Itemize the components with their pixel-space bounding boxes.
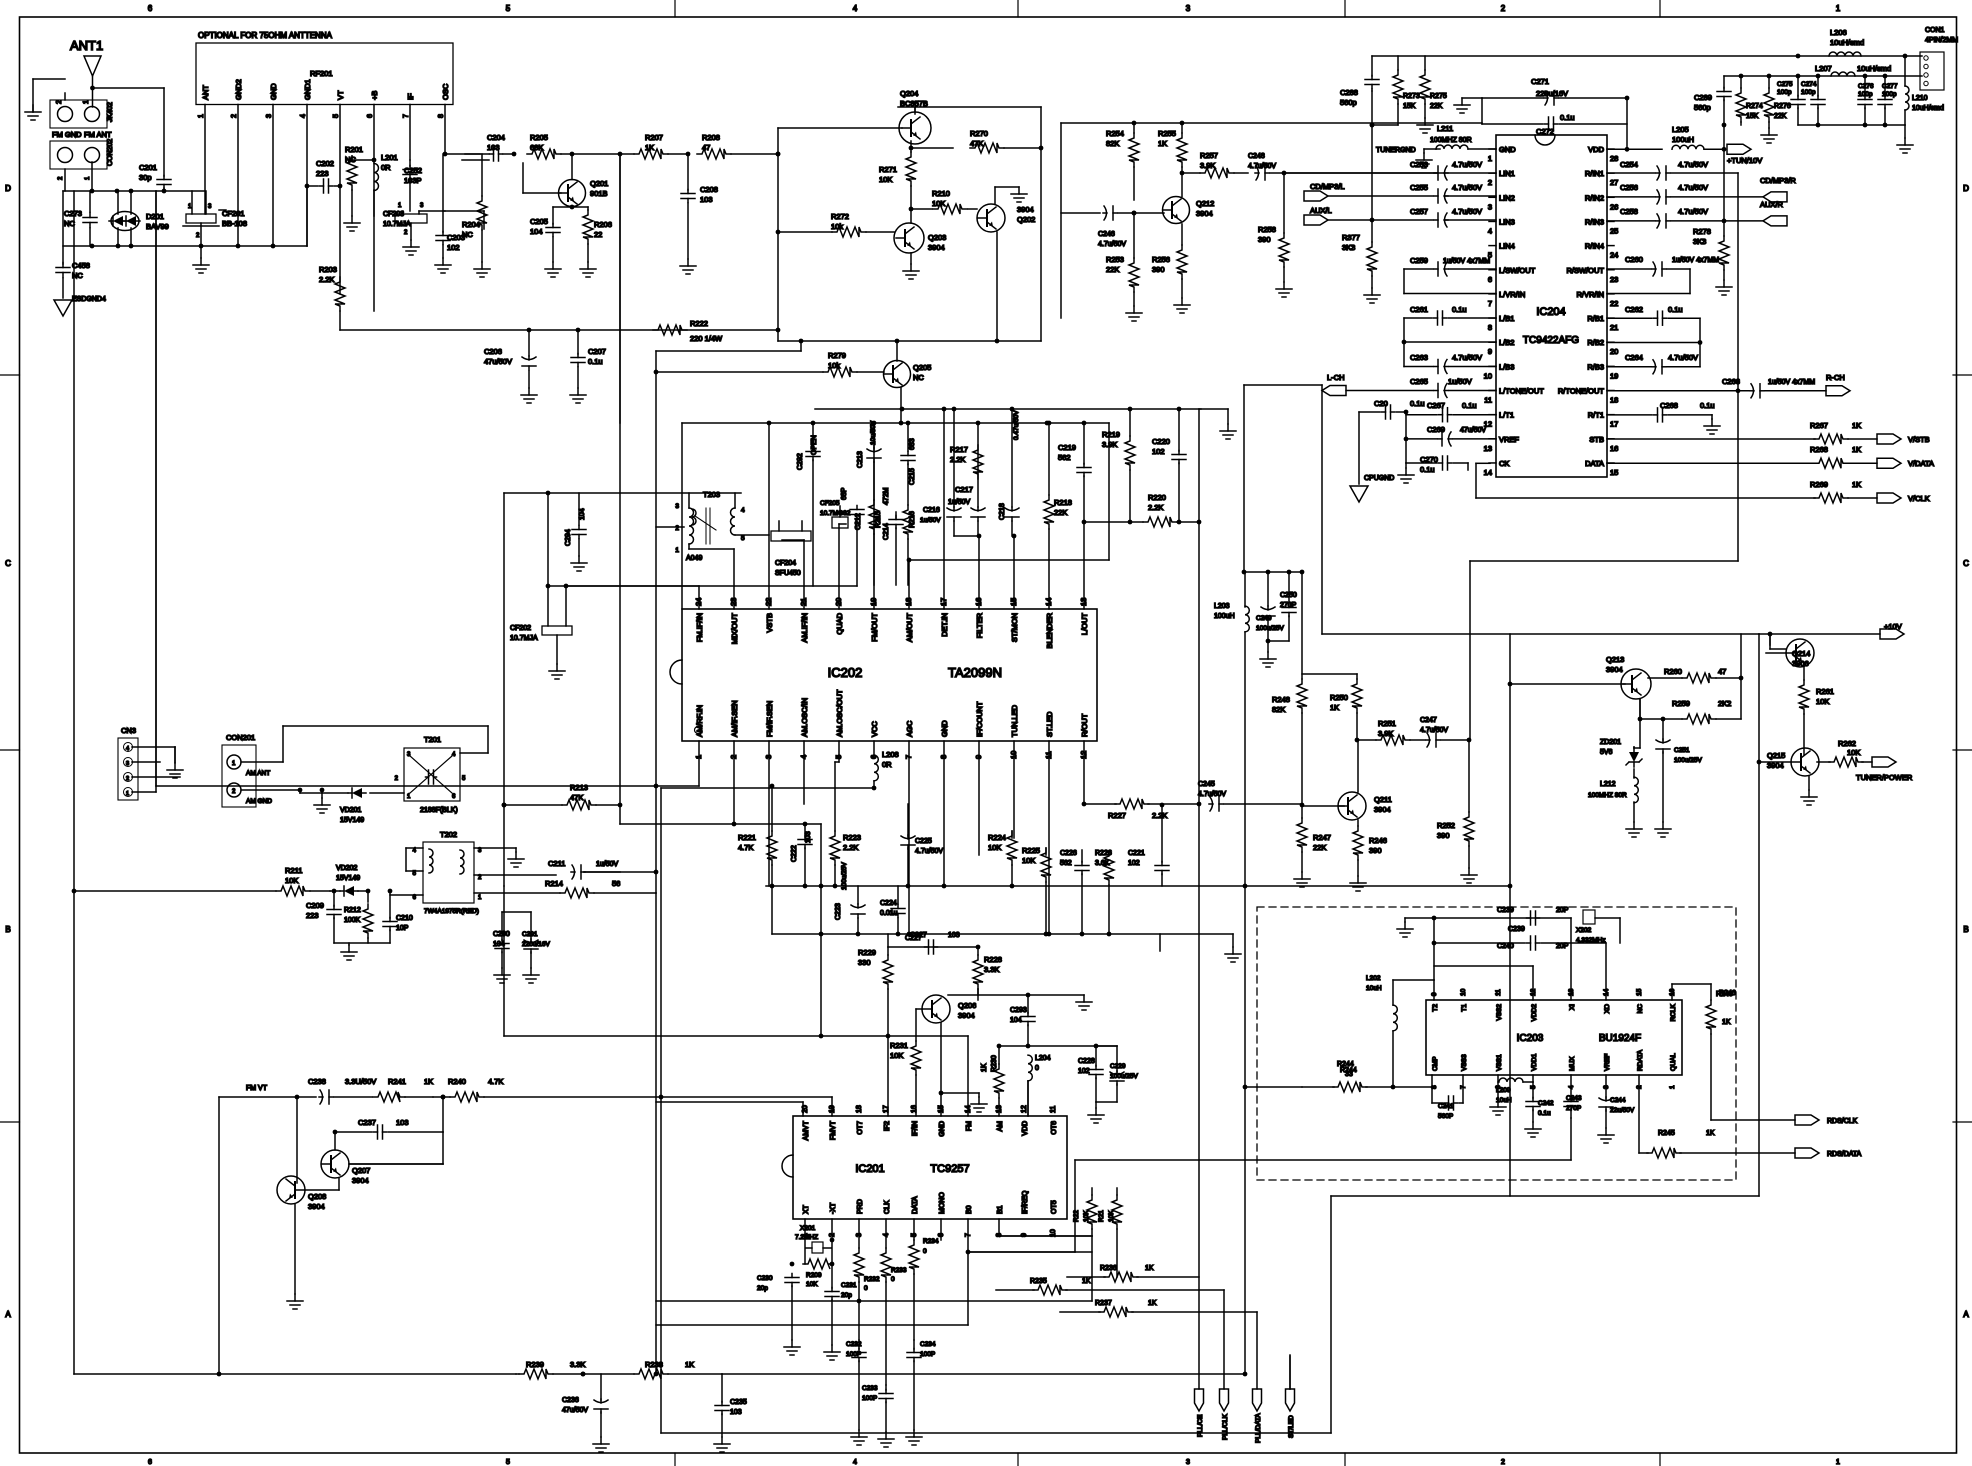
wire bottom bus y=1374 — [74, 1373, 516, 1375]
svg-text:10: 10 — [1484, 371, 1492, 380]
wire top bus y=56 — [1372, 55, 1922, 57]
capacitor C458 NC — [62, 263, 64, 268]
svg-text:R212: R212 — [344, 907, 361, 914]
wire C239 row — [1405, 917, 1571, 919]
wire IC202 pin21 — [803, 540, 805, 609]
wire Q215 base — [1759, 761, 1791, 763]
svg-text:C258: C258 — [1620, 207, 1638, 216]
wire IC202 pin7 — [908, 741, 910, 934]
wire bus y=886 — [766, 885, 1510, 887]
svg-text:ST/LED: ST/LED — [1288, 1415, 1295, 1438]
svg-text:Q215: Q215 — [1767, 751, 1785, 760]
svg-text:R231: R231 — [890, 1041, 908, 1050]
svg-text:1K: 1K — [1145, 1265, 1154, 1272]
wire vertical x=620 — [619, 154, 621, 423]
svg-text:R220: R220 — [1148, 493, 1166, 502]
resistor R234 0 — [913, 1219, 915, 1240]
svg-text:0R: 0R — [381, 163, 391, 172]
wire bus y=330 — [340, 329, 778, 331]
svg-text:B1: B1 — [997, 1205, 1004, 1214]
svg-text:R21: R21 — [1098, 1210, 1105, 1222]
svg-text:TC9422AFG: TC9422AFG — [1523, 335, 1579, 346]
wire STB to V/STB — [1607, 438, 1815, 440]
terminal V/CLK — [1877, 493, 1901, 503]
svg-text:TUNER/POWER: TUNER/POWER — [1856, 773, 1913, 782]
svg-text:R/T1: R/T1 — [1588, 411, 1604, 420]
svg-text:7.2MHZ: 7.2MHZ — [795, 1234, 818, 1241]
wire bus y=123 — [1061, 122, 1482, 124]
svg-text:R203: R203 — [319, 265, 337, 274]
wire CF202 — [565, 586, 567, 626]
wire R244 left — [1245, 1086, 1302, 1088]
svg-text:4.7u/50V: 4.7u/50V — [1668, 353, 1698, 362]
svg-text:C213: C213 — [857, 451, 864, 468]
svg-text:4.7u/50V: 4.7u/50V — [1198, 791, 1226, 798]
svg-text:0.1u: 0.1u — [1538, 1110, 1551, 1117]
svg-text:A: A — [5, 1310, 11, 1319]
svg-text:20P: 20P — [1556, 907, 1569, 914]
svg-text:C241: C241 — [1438, 1103, 1454, 1110]
svg-text:3: 3 — [420, 203, 424, 209]
svg-text:CON202: CON202 — [107, 139, 114, 166]
svg-text:RDS/CLK: RDS/CLK — [1827, 1118, 1858, 1125]
wire to R207 — [572, 153, 634, 155]
svg-text:ANT: ANT — [201, 85, 210, 100]
svg-text:FM.IF/IN: FM.IF/IN — [695, 613, 704, 642]
svg-text:10K: 10K — [890, 1051, 903, 1060]
svg-text:C263: C263 — [1410, 353, 1428, 362]
svg-text:21: 21 — [1610, 323, 1618, 332]
svg-text:23: 23 — [1610, 275, 1618, 284]
svg-text:CMP: CMP — [1432, 1057, 1439, 1071]
svg-text:24: 24 — [1610, 251, 1618, 260]
wire x=1199 — [1198, 409, 1200, 1389]
svg-text:18: 18 — [1610, 396, 1618, 405]
svg-text:Q211: Q211 — [1374, 795, 1392, 804]
svg-text:0.1u: 0.1u — [1452, 305, 1467, 314]
svg-text:L210: L210 — [1912, 95, 1928, 102]
svg-text:T201: T201 — [424, 735, 441, 744]
svg-text:6: 6 — [148, 1459, 152, 1466]
svg-text:C201: C201 — [139, 163, 157, 172]
svg-text:GND: GND — [940, 720, 949, 737]
svg-text:R234: R234 — [923, 1238, 939, 1245]
svg-text:3904: 3904 — [928, 243, 945, 252]
svg-text:L212: L212 — [1600, 781, 1616, 788]
svg-text:10K: 10K — [1083, 1210, 1090, 1222]
svg-text:DATA: DATA — [912, 1196, 919, 1214]
svg-text:0.1u: 0.1u — [1410, 399, 1425, 408]
svg-text:C212: C212 — [855, 513, 862, 530]
svg-text:1: 1 — [83, 100, 90, 104]
svg-text:CPUGND: CPUGND — [1364, 475, 1394, 482]
svg-text:R262: R262 — [1838, 739, 1856, 748]
terminal +TUN/10V — [1727, 144, 1751, 154]
svg-text:19: 19 — [1610, 371, 1618, 380]
svg-text:Q212: Q212 — [1196, 199, 1214, 208]
svg-text:R206: R206 — [594, 220, 612, 229]
svg-text:4.7u/50V: 4.7u/50V — [1678, 207, 1708, 216]
wire IC202 pin24 — [698, 586, 700, 609]
svg-text:0.1u: 0.1u — [1700, 401, 1715, 410]
svg-text:C262: C262 — [1625, 305, 1643, 314]
wire IC202 pin9 — [978, 741, 980, 855]
svg-text:SFU450: SFU450 — [775, 570, 801, 577]
wire Q208 emitter gnd — [294, 1204, 296, 1294]
svg-text:R248: R248 — [1272, 695, 1290, 704]
svg-text:C216: C216 — [923, 507, 940, 514]
svg-text:17: 17 — [883, 1105, 890, 1113]
svg-text:RCLK: RCLK — [1670, 1003, 1677, 1021]
svg-text:XT: XT — [803, 1204, 810, 1214]
svg-text:47u/50V: 47u/50V — [484, 357, 512, 366]
svg-text:AM/RF.IN: AM/RF.IN — [695, 705, 704, 737]
svg-text:28: 28 — [1610, 154, 1618, 163]
svg-text:C247: C247 — [1420, 717, 1437, 724]
svg-text:R240: R240 — [448, 1077, 466, 1086]
svg-text:CK: CK — [1499, 459, 1509, 468]
svg-text:IF2: IF2 — [884, 1121, 891, 1131]
svg-text:VCC: VCC — [870, 721, 879, 737]
svg-text:CF201: CF201 — [222, 209, 245, 218]
svg-text:901B: 901B — [590, 189, 608, 198]
terminal RDS/DATA — [1795, 1148, 1819, 1158]
svg-text:C230: C230 — [757, 1275, 773, 1282]
wire x=1724 vertical — [1723, 125, 1725, 221]
svg-text:0.47u/50V: 0.47u/50V — [1013, 410, 1020, 440]
resistor R233 0 — [885, 1219, 887, 1248]
svg-text:AUX/R: AUX/R — [1760, 200, 1784, 209]
svg-text:7: 7 — [1488, 299, 1492, 308]
svg-text:L208: L208 — [882, 750, 899, 759]
svg-text:10.7MJA: 10.7MJA — [383, 221, 411, 228]
wire y=560 585 — [909, 559, 1109, 561]
svg-text:5V6: 5V6 — [1600, 749, 1613, 756]
wire Q206 collector — [948, 994, 1084, 996]
svg-text:C246: C246 — [1098, 231, 1115, 238]
svg-text:L207: L207 — [1815, 64, 1832, 73]
svg-text:R258: R258 — [1258, 225, 1276, 234]
svg-text:CF203: CF203 — [383, 211, 404, 218]
svg-text:47u/50V: 47u/50V — [562, 1407, 588, 1414]
svg-text:C274: C274 — [1801, 81, 1817, 88]
svg-text:OT6: OT6 — [1051, 1121, 1058, 1135]
svg-text:QUAD: QUAD — [835, 612, 844, 634]
svg-text:4: 4 — [853, 4, 858, 13]
svg-text:1: 1 — [1836, 4, 1841, 13]
svg-text:6: 6 — [148, 4, 153, 13]
svg-text:4: 4 — [741, 507, 745, 514]
svg-text:22K: 22K — [1430, 103, 1443, 110]
svg-text:STB: STB — [1589, 435, 1604, 444]
svg-text:2.2K: 2.2K — [1152, 811, 1167, 820]
svg-text:4.7K: 4.7K — [488, 1077, 503, 1086]
svg-text:L/TONE/OUT: L/TONE/OUT — [1499, 387, 1544, 396]
svg-text:A049: A049 — [686, 555, 702, 562]
svg-text:2: 2 — [395, 776, 399, 782]
svg-text:0.1u: 0.1u — [588, 357, 603, 366]
svg-text:1K: 1K — [1722, 1019, 1731, 1026]
svg-text:2: 2 — [1488, 178, 1492, 187]
svg-text:FM GND: FM GND — [52, 130, 82, 139]
wire y=1433 — [661, 1432, 1331, 1434]
terminal TUNER/POWER — [1872, 757, 1896, 767]
svg-text:68P: 68P — [841, 487, 848, 500]
svg-text:11: 11 — [1484, 396, 1492, 405]
svg-text:4: 4 — [853, 1459, 857, 1466]
svg-text:562: 562 — [1060, 860, 1072, 867]
svg-text:3904: 3904 — [1017, 205, 1034, 214]
svg-text:VSS2: VSS2 — [1496, 1004, 1503, 1021]
svg-text:560P: 560P — [1438, 1113, 1453, 1120]
svg-text:C227: C227 — [910, 932, 927, 939]
svg-text:R259: R259 — [1672, 699, 1690, 708]
svg-text:1K: 1K — [1852, 421, 1861, 430]
svg-text:0: 0 — [923, 1248, 927, 1255]
svg-text:L203: L203 — [1214, 603, 1230, 610]
svg-text:103: 103 — [700, 195, 713, 204]
svg-text:CF204: CF204 — [775, 560, 796, 567]
svg-text:1u/50V: 1u/50V — [920, 517, 941, 524]
svg-text:104: 104 — [530, 227, 543, 236]
terminal PLL/CE — [1195, 1389, 1204, 1411]
svg-text:CD/MP3/L: CD/MP3/L — [1310, 182, 1345, 191]
wire — [93, 87, 165, 89]
terminal PLL/DATA — [1253, 1389, 1262, 1411]
svg-text:562: 562 — [1058, 453, 1071, 462]
svg-text:MIX/OUT: MIX/OUT — [730, 613, 739, 645]
terminal V/STB — [1877, 434, 1901, 444]
svg-text:R211: R211 — [285, 866, 302, 875]
svg-text:2: 2 — [196, 233, 200, 239]
ground bus — [334, 942, 390, 944]
svg-text:L201: L201 — [381, 153, 398, 162]
svg-text:1: 1 — [85, 176, 91, 180]
svg-text:C261: C261 — [1410, 305, 1428, 314]
svg-text:3: 3 — [266, 114, 273, 118]
svg-text:22K: 22K — [1054, 508, 1067, 517]
svg-text:R273: R273 — [1403, 93, 1420, 100]
svg-text:AUX/L: AUX/L — [1310, 206, 1332, 215]
svg-text:C228: C228 — [1078, 1058, 1095, 1065]
svg-text:10K: 10K — [806, 1281, 818, 1288]
wire FMVT line extension — [661, 1096, 832, 1098]
svg-text:1: 1 — [398, 203, 402, 209]
svg-text:1u/50V: 1u/50V — [596, 861, 619, 868]
svg-text:1u/50V 4x7MM: 1u/50V 4x7MM — [1443, 258, 1490, 265]
svg-text:C240: C240 — [1497, 943, 1514, 950]
wire pin2 bus y=824 — [620, 823, 734, 825]
svg-text:10K: 10K — [988, 843, 1001, 852]
svg-text:Q206: Q206 — [958, 1001, 976, 1010]
svg-text:Q201: Q201 — [590, 179, 608, 188]
svg-text:C224: C224 — [880, 900, 897, 907]
svg-text:R377: R377 — [1342, 233, 1360, 242]
wire AM ANT to T201 — [283, 725, 488, 727]
svg-text:GND: GND — [1499, 145, 1516, 154]
svg-text:C272: C272 — [1536, 127, 1554, 136]
svg-text:1K: 1K — [1330, 703, 1339, 712]
svg-text:ZD201: ZD201 — [1600, 739, 1621, 746]
wire bus y=125 — [1798, 124, 1905, 126]
wire +10V rail — [1740, 634, 1742, 678]
svg-text:102: 102 — [1078, 1068, 1090, 1075]
svg-text:3: 3 — [1186, 4, 1191, 13]
svg-text:15K: 15K — [1746, 113, 1759, 120]
svg-text:R245: R245 — [1658, 1130, 1675, 1137]
svg-text:C207: C207 — [588, 347, 606, 356]
wire IC202 pin17 — [943, 409, 945, 609]
svg-text:4.7K: 4.7K — [738, 843, 753, 852]
svg-text:C210: C210 — [396, 915, 413, 922]
svg-text:VREF: VREF — [1499, 435, 1519, 444]
svg-text:22K: 22K — [1313, 843, 1326, 852]
svg-text:C294: C294 — [565, 529, 572, 546]
wire — [583, 1373, 634, 1375]
svg-text:C276: C276 — [1858, 83, 1874, 90]
svg-text:VDD: VDD — [1022, 1121, 1029, 1136]
ground Q215 — [1808, 776, 1810, 790]
svg-text:C204: C204 — [487, 133, 505, 142]
svg-text:3904: 3904 — [352, 1176, 369, 1185]
svg-text:9: 9 — [1488, 347, 1492, 356]
svg-text:DATA: DATA — [1585, 459, 1604, 468]
svg-text:L/VR/IN: L/VR/IN — [1499, 290, 1525, 299]
svg-text:L/B3: L/B3 — [1499, 362, 1514, 371]
IC201 TC9257 — [793, 1116, 1067, 1219]
wire bus y=572 — [1244, 571, 1302, 573]
svg-text:C: C — [5, 559, 11, 568]
svg-text:13: 13 — [1484, 444, 1492, 453]
svg-text:C214: C214 — [883, 523, 890, 540]
wire RF201 pin8 OSC — [444, 105, 446, 155]
svg-text:390: 390 — [1369, 846, 1382, 855]
svg-text:R256: R256 — [1152, 255, 1170, 264]
svg-text:2: 2 — [126, 776, 129, 782]
wire corner x=1244 to x=1322 — [1244, 384, 1322, 386]
wire IC202 pin1 — [698, 741, 700, 786]
svg-text:4.7u/50V: 4.7u/50V — [1452, 207, 1482, 216]
svg-text:R270: R270 — [970, 129, 988, 138]
svg-text:4.7u/50V: 4.7u/50V — [1452, 160, 1482, 169]
svg-text:22: 22 — [594, 230, 602, 239]
svg-text:OPTIONAL FOR 75OHM ANTTENNA: OPTIONAL FOR 75OHM ANTTENNA — [198, 31, 333, 40]
svg-text:CN3: CN3 — [121, 726, 136, 735]
wire bus y=1301 y=1325 — [656, 1300, 1092, 1302]
svg-text:VSTB: VSTB — [765, 613, 774, 633]
svg-text:C239: C239 — [1497, 907, 1514, 914]
svg-text:2: 2 — [56, 100, 63, 104]
op-amp IC202 TA2099N — [682, 609, 1097, 741]
svg-text:16: 16 — [1610, 444, 1618, 453]
svg-text:AM/OUT: AM/OUT — [905, 613, 914, 643]
svg-text:4.7u/50V: 4.7u/50V — [1420, 727, 1448, 734]
svg-text:R224: R224 — [988, 833, 1006, 842]
svg-text:TUN.LED: TUN.LED — [1010, 704, 1019, 737]
wire verticals misc — [155, 191, 157, 792]
ground — [1404, 918, 1406, 922]
svg-text:B: B — [5, 925, 10, 934]
svg-text:0.1u: 0.1u — [1560, 113, 1575, 122]
svg-text:1: 1 — [1836, 1459, 1840, 1466]
svg-text:6: 6 — [413, 895, 417, 901]
svg-text:5: 5 — [506, 4, 511, 13]
svg-text:3904: 3904 — [308, 1202, 325, 1211]
svg-text:1K: 1K — [981, 1063, 988, 1072]
svg-text:NC: NC — [462, 230, 473, 239]
svg-text:1: 1 — [1669, 1085, 1676, 1089]
wire Q206 base — [916, 1008, 922, 1010]
svg-text:C259: C259 — [1410, 256, 1428, 265]
svg-text:ST.LED: ST.LED — [1045, 711, 1054, 737]
svg-text:R201: R201 — [345, 145, 363, 154]
svg-text:3: 3 — [208, 204, 212, 210]
svg-text:R257: R257 — [1200, 151, 1218, 160]
svg-text:CD/MP3/R: CD/MP3/R — [1760, 176, 1796, 185]
wire IC202 pin18 — [908, 560, 910, 609]
svg-text:C221: C221 — [1128, 850, 1145, 857]
svg-text:15V149: 15V149 — [336, 875, 360, 882]
svg-text:Q205: Q205 — [913, 363, 931, 372]
svg-text:MONO: MONO — [939, 1192, 946, 1214]
svg-text:C292: C292 — [797, 453, 804, 470]
svg-text:1K: 1K — [1852, 480, 1861, 489]
svg-text:2: 2 — [231, 114, 238, 118]
svg-text:Q202: Q202 — [1017, 215, 1035, 224]
svg-text:R/VR/IN: R/VR/IN — [1576, 290, 1604, 299]
svg-text:20p: 20p — [757, 1285, 768, 1292]
svg-text:0.1u: 0.1u — [1420, 465, 1435, 474]
op-amp IC204 TC9422AFG — [1496, 135, 1607, 477]
svg-text:2: 2 — [478, 875, 482, 881]
wire ST/LED — [1289, 1355, 1291, 1389]
svg-text:BLENDER: BLENDER — [1045, 612, 1054, 648]
svg-text:Q207: Q207 — [352, 1166, 370, 1175]
svg-text:3K3: 3K3 — [1693, 237, 1706, 246]
svg-text:100P: 100P — [862, 1395, 877, 1402]
svg-text:IC202: IC202 — [828, 665, 863, 680]
svg-text:2188F(BLK): 2188F(BLK) — [420, 807, 458, 814]
svg-text:3904: 3904 — [958, 1011, 975, 1020]
svg-text:4.7u/50V: 4.7u/50V — [1678, 183, 1708, 192]
svg-text:1u/50V: 1u/50V — [1448, 377, 1472, 386]
svg-text:AM: AM — [997, 1121, 1004, 1132]
svg-text:100K: 100K — [344, 917, 361, 924]
svg-text:3.3K: 3.3K — [570, 1360, 585, 1369]
svg-text:VSS3: VSS3 — [1461, 1054, 1468, 1071]
svg-text:10: 10 — [1460, 988, 1467, 996]
svg-text:R255: R255 — [1158, 129, 1176, 138]
svg-text:R237: R237 — [1095, 1300, 1112, 1307]
svg-text:1: 1 — [407, 794, 411, 800]
wire T202 left pins — [406, 847, 423, 849]
svg-text:R/B2: R/B2 — [1587, 338, 1604, 347]
svg-text:4.7u/50V: 4.7u/50V — [1452, 183, 1482, 192]
wire IC202 pin5 — [838, 741, 840, 762]
svg-text:103: 103 — [730, 1409, 742, 1416]
svg-text:C206: C206 — [484, 347, 502, 356]
svg-text:R276: R276 — [1774, 103, 1791, 110]
svg-text:R236: R236 — [1100, 1265, 1117, 1272]
svg-text:IF/REQ: IF/REQ — [1022, 1190, 1029, 1214]
svg-text:R223: R223 — [843, 833, 861, 842]
svg-text:R267: R267 — [1810, 421, 1828, 430]
wire — [777, 128, 779, 341]
svg-text:C233: C233 — [862, 1385, 878, 1392]
svg-text:IC204: IC204 — [1536, 306, 1565, 318]
svg-text:LIN2: LIN2 — [1499, 193, 1515, 202]
svg-text:2.2K: 2.2K — [319, 275, 334, 284]
